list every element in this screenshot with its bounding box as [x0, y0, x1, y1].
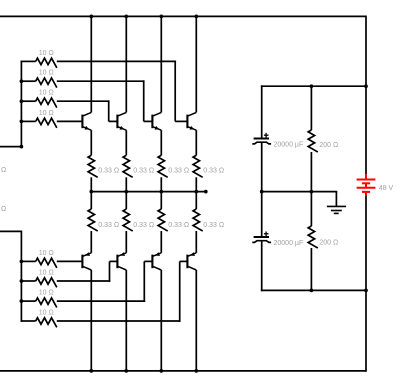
- svg-text:10 Ω: 10 Ω: [39, 270, 54, 277]
- svg-text:20000 µF: 20000 µF: [274, 240, 304, 247]
- svg-text:200 Ω: 200 Ω: [319, 142, 338, 149]
- svg-text:10 Ω: 10 Ω: [39, 70, 54, 77]
- svg-text:Ω: Ω: [1, 206, 6, 213]
- svg-text:0.33 Ω: 0.33 Ω: [203, 222, 224, 229]
- svg-text:10 Ω: 10 Ω: [39, 110, 54, 117]
- svg-text:10 Ω: 10 Ω: [39, 250, 54, 257]
- svg-text:10 Ω: 10 Ω: [39, 310, 54, 317]
- svg-text:0.33 Ω: 0.33 Ω: [133, 167, 154, 174]
- svg-text:0.33 Ω: 0.33 Ω: [98, 222, 119, 229]
- svg-text:10 Ω: 10 Ω: [39, 50, 54, 57]
- svg-text:0.33 Ω: 0.33 Ω: [98, 167, 119, 174]
- svg-text:10 Ω: 10 Ω: [39, 290, 54, 297]
- svg-text:0.33 Ω: 0.33 Ω: [168, 222, 189, 229]
- svg-text:200 Ω: 200 Ω: [319, 239, 338, 246]
- svg-text:Ω: Ω: [1, 167, 6, 174]
- svg-text:10 Ω: 10 Ω: [39, 90, 54, 97]
- svg-text:0.33 Ω: 0.33 Ω: [133, 222, 154, 229]
- svg-text:20000 µF: 20000 µF: [274, 142, 304, 149]
- svg-text:0.33 Ω: 0.33 Ω: [168, 167, 189, 174]
- svg-text:48 V: 48 V: [379, 185, 394, 192]
- svg-text:0.33 Ω: 0.33 Ω: [203, 167, 224, 174]
